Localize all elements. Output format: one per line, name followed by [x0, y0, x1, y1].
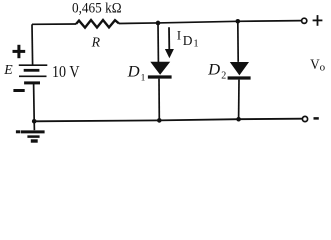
- wire bottom horizontal: [34, 119, 302, 122]
- wire left vertical (battery top lead): [31, 24, 34, 65]
- svg-text:D: D: [127, 64, 140, 81]
- plus sign battery: [13, 45, 26, 58]
- ground: [16, 121, 45, 141]
- svg-text:1: 1: [193, 38, 198, 49]
- wire battery bottom lead: [33, 83, 36, 121]
- svg-text:D: D: [207, 61, 220, 78]
- diode D2: [228, 21, 251, 119]
- node junction top D2: [236, 19, 241, 24]
- svg-text:2: 2: [221, 71, 226, 82]
- svg-text:D: D: [183, 33, 193, 48]
- svg-text:R: R: [91, 35, 101, 50]
- svg-text:1: 1: [141, 74, 146, 84]
- output terminal bottom: [302, 116, 307, 121]
- resistor R: [76, 20, 119, 28]
- minus sign battery: [13, 89, 24, 92]
- output terminal top: [302, 18, 307, 23]
- node junction bottom left: [32, 119, 37, 124]
- node junction bottom D1: [157, 118, 162, 123]
- svg-text:I: I: [177, 28, 181, 42]
- svg-text:E: E: [3, 62, 13, 77]
- svg-text:10 V: 10 V: [52, 62, 80, 81]
- wire top horizontal left segment: [32, 23, 76, 25]
- wire top horizontal right segment: [119, 21, 302, 24]
- node junction bottom D2: [236, 117, 241, 122]
- svg-text:o: o: [320, 61, 326, 73]
- current arrow ID1: [165, 27, 174, 58]
- diode D1: [148, 23, 172, 120]
- plus sign output: [313, 15, 323, 26]
- minus sign output: [314, 117, 319, 120]
- battery E plates: [19, 65, 48, 83]
- svg-text:0,465 kΩ: 0,465 kΩ: [72, 1, 122, 17]
- node junction top D1: [156, 21, 161, 26]
